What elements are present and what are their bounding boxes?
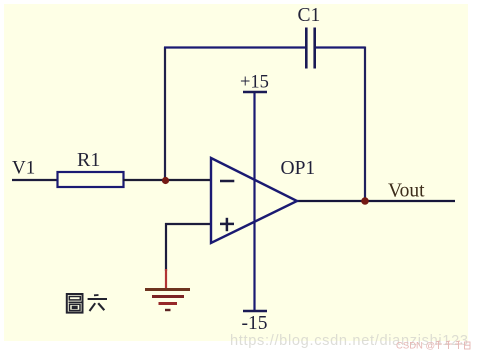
node Vout junction	[361, 197, 369, 205]
svg-text:+15: +15	[240, 73, 269, 93]
千千千白 strokes	[435, 341, 470, 349]
svg-text:CSDN @: CSDN @	[396, 341, 435, 352]
wire feedback riser	[164, 47, 166, 181]
wire R1 to op-amp inverting input	[123, 179, 211, 181]
wire ground drop lower (red)	[165, 269, 167, 289]
power rail +15/-15	[253, 92, 255, 311]
svg-text:V1: V1	[12, 158, 35, 179]
op-amp OP1	[211, 158, 297, 243]
wire right riser to output	[364, 47, 366, 202]
caption 圖六 (drawn strokes)	[67, 294, 107, 313]
resistor R1	[58, 172, 124, 187]
svg-text:OP1: OP1	[281, 158, 316, 179]
op-amp plus pin mark	[220, 218, 234, 231]
wire top feedback right segment	[316, 46, 365, 48]
watermark csdn user	[396, 341, 470, 352]
op-amp minus pin mark	[220, 180, 234, 183]
wire V1 input to R1	[12, 179, 58, 181]
+15 bar	[243, 91, 267, 93]
wire non-inverting input	[165, 223, 211, 225]
svg-text:R1: R1	[77, 149, 100, 171]
wire top feedback left segment	[164, 46, 306, 48]
svg-text:-15: -15	[242, 313, 268, 334]
-15 bar	[243, 310, 267, 312]
capacitor C1	[306, 28, 314, 69]
char 六	[94, 294, 99, 296]
svg-text:Vout: Vout	[388, 181, 425, 202]
svg-text:C1: C1	[298, 5, 321, 26]
char 圖	[67, 294, 83, 313]
node: inverting input junction	[162, 177, 169, 184]
wire ground drop upper	[165, 223, 167, 271]
ground	[145, 290, 190, 311]
wire output	[297, 200, 455, 202]
